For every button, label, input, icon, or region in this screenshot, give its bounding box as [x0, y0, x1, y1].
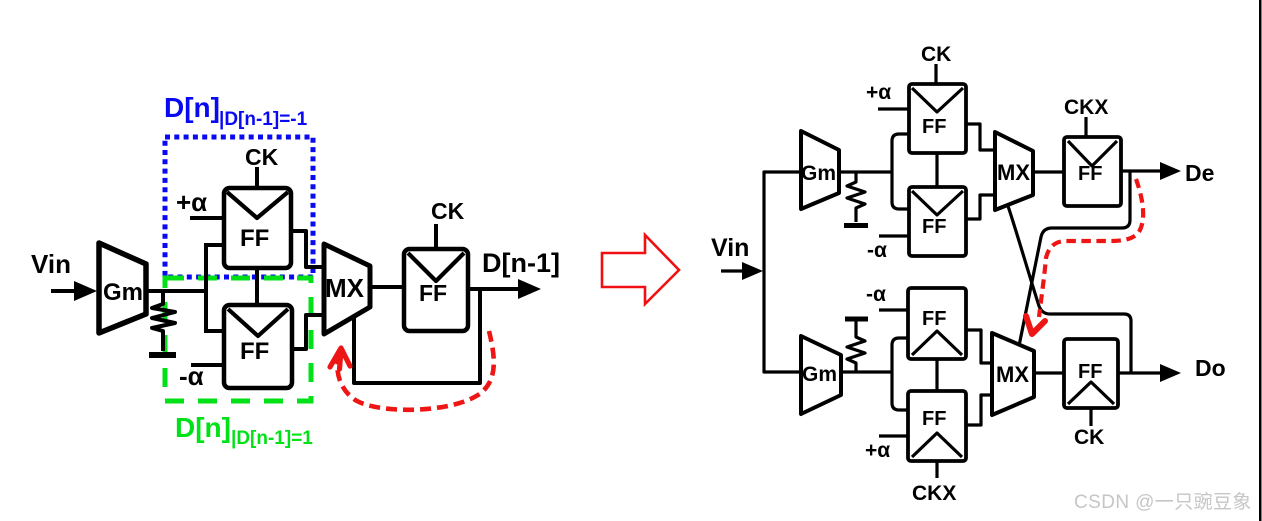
- svg-text:CKX: CKX: [912, 482, 956, 505]
- svg-text:-α: -α: [867, 239, 887, 262]
- svg-text:D[n-1]: D[n-1]: [482, 248, 560, 278]
- svg-text:+α: +α: [865, 439, 890, 462]
- svg-text:CKX: CKX: [1064, 96, 1108, 119]
- svg-text:CSDN @一只豌豆象: CSDN @一只豌豆象: [1074, 491, 1252, 513]
- svg-text:FF: FF: [240, 338, 269, 365]
- svg-text:FF: FF: [922, 308, 946, 330]
- svg-text:FF: FF: [922, 408, 946, 430]
- svg-text:MX: MX: [996, 362, 1029, 387]
- svg-text:Do: Do: [1195, 355, 1226, 381]
- svg-text:FF: FF: [922, 216, 946, 238]
- svg-text:FF: FF: [1078, 163, 1102, 185]
- svg-text:D[n]: D[n]: [164, 92, 220, 123]
- svg-text:FF: FF: [922, 116, 946, 138]
- svg-text:Gm: Gm: [103, 279, 143, 306]
- svg-text:Vin: Vin: [31, 249, 71, 279]
- svg-text:Vin: Vin: [711, 234, 749, 262]
- svg-text:-α: -α: [866, 283, 886, 306]
- svg-text:CK: CK: [1074, 426, 1104, 449]
- svg-text:CK: CK: [921, 43, 951, 66]
- svg-text:+α: +α: [866, 81, 891, 104]
- svg-text:+α: +α: [176, 187, 207, 217]
- svg-text:MX: MX: [997, 160, 1030, 185]
- svg-text:De: De: [1185, 160, 1214, 186]
- svg-text:MX: MX: [325, 273, 365, 303]
- svg-text:D[n]: D[n]: [175, 412, 231, 443]
- svg-text:CK: CK: [245, 144, 279, 170]
- svg-text:FF: FF: [1078, 361, 1102, 383]
- svg-text:Gm: Gm: [801, 162, 836, 185]
- svg-text:CK: CK: [431, 198, 465, 224]
- svg-text:FF: FF: [240, 225, 269, 252]
- svg-text:Gm: Gm: [802, 363, 837, 386]
- svg-text:FF: FF: [419, 280, 447, 306]
- svg-text:|D[n-1]=-1: |D[n-1]=-1: [219, 109, 308, 130]
- svg-text:-α: -α: [179, 361, 204, 391]
- svg-text:|D[n-1]=1: |D[n-1]=1: [231, 428, 313, 449]
